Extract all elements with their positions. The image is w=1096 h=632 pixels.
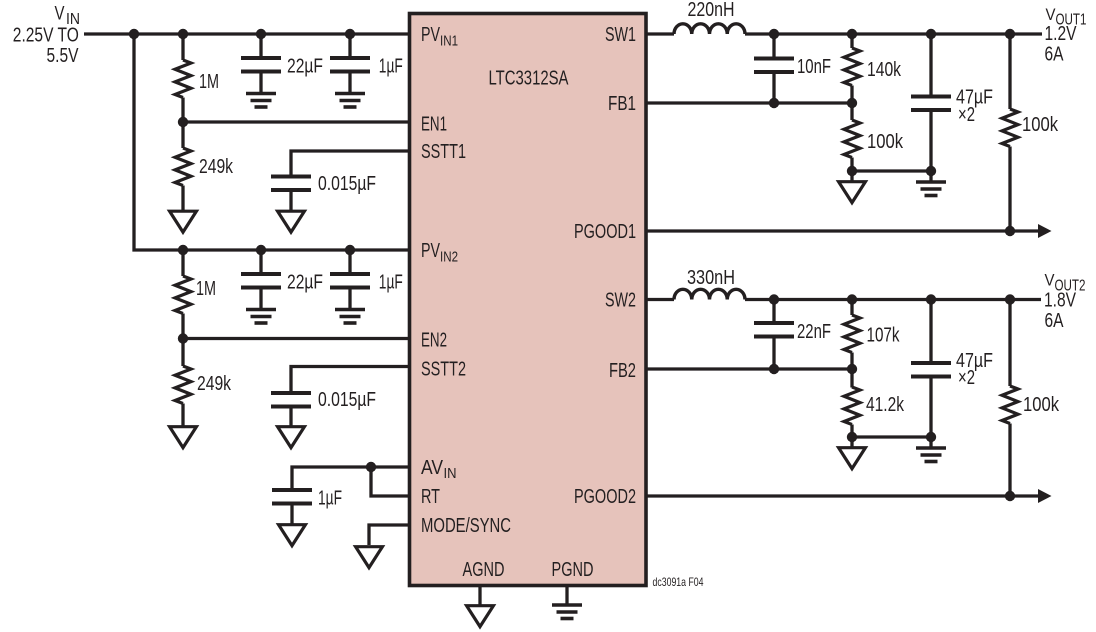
wire VIN row to PVIN1 [84,32,410,35]
svg-text:×2: ×2 [958,367,975,389]
wire R3 1M vertical span [181,250,184,276]
earth ground below C10 [916,448,946,462]
wire C2 1uF stubs [348,34,351,58]
svg-text:EN2: EN2 [421,330,447,352]
ground triangle below R4 [170,427,197,448]
svg-text:5.5V: 5.5V [47,45,80,67]
label 47uF x2 [956,87,993,127]
junction SW2-row at R10 100k [1005,294,1015,304]
wire R5 140k span [850,34,853,48]
ground triangle AGND [467,606,494,627]
svg-text:FB1: FB1 [608,93,636,115]
junction PVIN2-row at C4 22uF [256,245,266,255]
svg-text:V: V [1045,271,1056,290]
pin label PVIN2 [421,240,458,266]
svg-text:V: V [55,4,65,25]
svg-text:PV: PV [421,240,440,262]
resistor R10 100k pull-up [1002,386,1018,424]
svg-text:100k: 100k [867,131,904,153]
inductor L2 330nH [674,289,745,299]
wire MODE/SYNC to ground [369,525,410,545]
svg-text:1M: 1M [196,278,216,300]
wire R8 107k span [850,300,853,316]
junction FB2-row at C8 22nF [769,364,779,374]
junction SW1-row at R7 100k [1005,29,1015,39]
svg-text:IN: IN [444,465,457,482]
resistor R7 100k pull-up [1002,109,1018,147]
svg-text:100k: 100k [1022,114,1059,136]
svg-text:1.8V: 1.8V [1044,290,1077,312]
junction SW1-row at C7 10nF [769,29,779,39]
svg-text:FB2: FB2 [609,360,636,382]
input label VIN [55,4,81,28]
svg-text:22µF: 22µF [287,56,323,78]
svg-text:0.015µF: 0.015µF [318,173,376,195]
svg-text:0.015µF: 0.015µF [318,389,376,411]
wire FB2 row [646,367,852,370]
resistor R4 249k [175,366,191,404]
svg-text:SW2: SW2 [605,290,636,312]
wire EN2 row [183,337,410,340]
wire R4 249k vertical span [181,339,184,367]
svg-text:PGND: PGND [552,559,594,581]
earth ground below C2 [335,94,365,108]
junction SW1-row at C9 47uF [926,29,936,39]
wire FB1 row [646,101,852,104]
capacitor C11 1uF at AVIN [272,490,312,504]
wire C7 10nF stubs [772,34,775,59]
svg-text:249k: 249k [199,156,234,178]
svg-text:1.2V: 1.2V [1045,23,1078,45]
svg-text:10nF: 10nF [797,56,831,78]
junction PVIN2-row at C5 1uF [345,245,355,255]
capacitor C1 22uF [241,58,281,72]
wire C5 1uF stubs [348,250,351,274]
junction ground-row-2 at C10 [926,432,936,442]
earth ground below C1 [246,94,276,108]
junction PGOOD1 at R7 [1005,226,1015,236]
svg-text:220nH: 220nH [688,0,735,21]
output label VOUT1 [1046,5,1087,29]
arrow PGOOD2 output [1038,489,1052,503]
junction PGOOD2 at R10 [1005,491,1015,501]
svg-text:1µF: 1µF [379,272,403,294]
svg-text:PV: PV [421,24,440,46]
capacitor C3 0.015uF [271,177,311,191]
capacitor C5 1uF [330,274,370,288]
svg-text:6A: 6A [1045,310,1065,332]
svg-text:V: V [1046,5,1057,24]
capacitor C6 0.015uF [271,393,311,407]
svg-text:1µF: 1µF [379,56,403,78]
svg-text:SSTT2: SSTT2 [421,359,466,381]
wire ground row 1 [852,169,931,172]
wire C4 22uF stubs [259,250,262,274]
junction VIN-row at C1 22uF [256,29,266,39]
svg-text:LTC3312SA: LTC3312SA [489,68,569,90]
wire RT to AVIN junction [371,467,410,496]
ground triangle below C6 [278,427,305,448]
resistor R2 249k [175,148,191,186]
wire C1 22uF stubs [259,34,262,58]
ground triangle below C3 [278,211,305,232]
capacitor C4 22uF [241,274,281,288]
wire C9 47uF stubs [929,34,932,96]
svg-text:SW1: SW1 [605,24,636,46]
junction AVIN/RT [366,462,376,472]
resistor R1 1M [175,60,191,98]
svg-text:6A: 6A [1045,44,1065,66]
wire L1 to VOUT1 [745,32,1042,35]
svg-text:AGND: AGND [463,559,505,581]
wire SW2 to L2 [646,298,674,301]
wire SW1 to L1 [646,32,674,35]
junction VIN-row at C2 1uF [345,29,355,39]
capacitor C10 47uF x2 [911,363,951,377]
junction FB2 at R8/R9 [847,364,857,374]
pin label PVIN1 [421,24,458,50]
resistor R9 41.2k [844,387,860,425]
resistor R3 1M [175,276,191,314]
junction EN2 at R3/R4 [178,333,188,343]
junction SW2-row at C8 22nF [769,294,779,304]
junction VIN-row at 134 [129,29,139,39]
arrow PGOOD1 output [1038,224,1052,238]
earth ground below C4 [246,310,276,324]
svg-text:IN2: IN2 [440,249,458,266]
wire C8 22nF stubs [772,300,775,324]
wire ground row 2 [852,435,931,438]
junction ground-row-2 at R9 [847,432,857,442]
wire L2 to VOUT2 [745,298,1041,301]
capacitor C9 47uF x2 [911,97,951,111]
earth ground below C9 [916,182,946,196]
capacitor C2 1uF [330,58,370,72]
ground triangle below R6 [839,182,866,203]
ground triangle MODE/SYNC [356,547,383,568]
IC U1 LTC3312SA body [410,14,647,586]
svg-text:IN1: IN1 [440,33,458,50]
output label VOUT2 [1045,271,1086,295]
junction VIN-row at R1 1M [178,29,188,39]
wire R7 100k load span [1008,34,1011,109]
label 47uF x2 [956,350,993,389]
capacitor C8 22nF [754,323,794,337]
resistor R6 100k [844,120,860,158]
wire VIN vertical to PVIN2 row [134,34,410,250]
junction PVIN2-row at R3 1M [178,245,188,255]
wire R2 249k vertical span [181,122,184,148]
svg-text:100k: 100k [1023,394,1060,416]
earth ground below C5 [335,310,365,324]
wire PGND stub [565,586,568,606]
wire C10 47uF stubs [929,300,932,364]
wire AVIN row [292,467,410,490]
svg-text:22nF: 22nF [797,321,831,343]
junction ground-row-1 at C9 [926,166,936,176]
svg-text:1M: 1M [199,71,219,93]
wire AGND stub [478,586,481,606]
svg-text:107k: 107k [867,325,901,347]
wire R10 100k load span [1008,300,1011,387]
resistor R8 107k [844,315,860,353]
wire PGOOD1 row [646,229,1039,232]
svg-text:AV: AV [421,457,444,479]
junction SW1-row at R5 140k [847,29,857,39]
svg-text:RT: RT [421,486,440,508]
wire SSTT2 to C6 [291,367,410,394]
junction SW2-row at C10 47uF [926,294,936,304]
svg-text:PGOOD1: PGOOD1 [574,221,636,243]
svg-text:330nH: 330nH [687,267,735,289]
wire R1 1M vertical span [181,34,184,60]
junction ground-row-1 at R6 [847,166,857,176]
pin label AVIN [421,457,457,482]
wire EN1 row [183,120,410,123]
wire R9 41.2k span [850,369,853,388]
ground triangle below C11 [279,525,306,546]
resistor R5 140k [844,48,860,86]
svg-text:249k: 249k [197,373,232,395]
svg-text:SSTT1: SSTT1 [421,141,466,163]
svg-text:PGOOD2: PGOOD2 [574,486,636,508]
junction SW2-row at R8 107k [847,294,857,304]
junction FB1 at R5/R6 [847,98,857,108]
ground triangle below R2 [170,211,197,232]
inductor L1 220nH [674,24,745,34]
earth ground PGND [552,605,582,619]
wire SSTT1 to C3 [291,151,410,177]
svg-text:140k: 140k [867,59,902,81]
svg-text:×2: ×2 [958,104,975,126]
wire R6 100k span [850,103,853,120]
ground triangle below R9 [839,448,866,469]
svg-text:1µF: 1µF [318,488,342,510]
junction FB1-row at C7 10nF [769,98,779,108]
svg-text:22µF: 22µF [287,272,323,294]
svg-text:MODE/SYNC: MODE/SYNC [421,515,511,537]
svg-text:41.2k: 41.2k [866,394,905,416]
capacitor C7 10nF [754,59,794,73]
svg-text:dc3091a F04: dc3091a F04 [653,575,704,589]
junction EN1 at R1/R2 [178,117,188,127]
svg-text:2.25V TO: 2.25V TO [13,25,79,47]
wire PGOOD2 row [646,494,1039,497]
svg-text:EN1: EN1 [421,114,447,136]
